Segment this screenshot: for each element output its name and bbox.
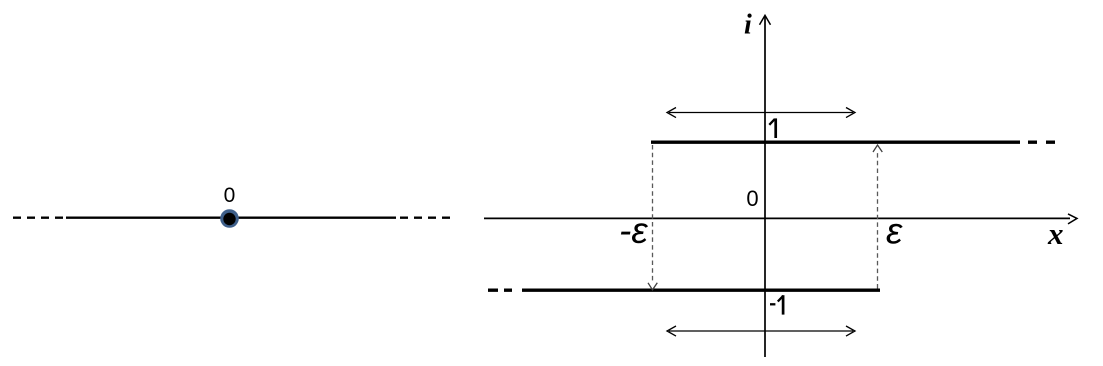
- svg-text:0: 0: [224, 184, 236, 207]
- svg-text:i: i: [744, 10, 752, 41]
- svg-text:x: x: [1047, 216, 1064, 251]
- svg-text:-ε: -ε: [619, 210, 648, 251]
- svg-text:0: 0: [746, 186, 758, 211]
- svg-text:ε: ε: [886, 211, 903, 252]
